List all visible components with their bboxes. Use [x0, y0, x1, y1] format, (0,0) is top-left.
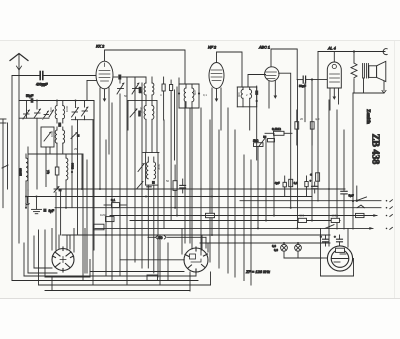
trimmer C6	[49, 110, 54, 117]
svg-text:600: 600	[193, 90, 197, 95]
terminal row 3	[386, 215, 393, 217]
wire bus 215	[110, 214, 378, 217]
junction dots buses	[25, 188, 330, 244]
svg-text:0,3: 0,3	[294, 181, 298, 185]
capacitor C31	[283, 176, 286, 197]
IF transformer T1 lower	[144, 95, 154, 152]
tube ABC1	[265, 67, 279, 81]
svg-text:1000: 1000	[50, 130, 54, 137]
resistor R9 pill	[254, 143, 264, 147]
scattered small labels	[42, 90, 338, 218]
capacitor C21	[180, 179, 186, 193]
lamp La2	[295, 243, 302, 258]
wire front-end top rail	[19, 76, 94, 244]
trimmer C4	[34, 101, 41, 119]
junction dot T2b	[198, 92, 200, 94]
wire ABC1 cathode arrow	[274, 81, 278, 99]
wire node A drop	[71, 126, 73, 208]
svg-text:50: 50	[124, 94, 128, 98]
svg-text:500: 500	[300, 214, 305, 218]
svg-text:10000: 10000	[19, 168, 23, 176]
capacitor C11	[162, 77, 165, 120]
terminal input marks	[0, 119, 8, 168]
coil L3 10000	[26, 154, 28, 208]
terminal label 50	[148, 236, 206, 248]
wire bus 243	[200, 242, 330, 244]
oscillator coil Ld	[63, 127, 65, 154]
IF transformer T2	[179, 78, 199, 243]
trimmer C10	[132, 83, 139, 94]
wire socket V2 mid feed	[120, 259, 184, 261]
capacitor C2 blob	[31, 98, 34, 103]
resistor R16	[206, 213, 215, 217]
svg-text:5µF: 5µF	[349, 194, 354, 198]
junction dot rail3	[75, 100, 77, 102]
wire NF2 pins	[212, 88, 221, 235]
connector hook	[26, 197, 29, 205]
wire bus 235	[62, 234, 330, 236]
tube NF2	[209, 63, 224, 89]
svg-text:2000: 2000	[138, 87, 142, 93]
socket V2	[184, 247, 208, 273]
wire speaker return	[353, 93, 384, 229]
output transformer	[363, 64, 369, 94]
junction dot D	[311, 78, 313, 80]
svg-text:20: 20	[300, 117, 304, 121]
wire AL4 top	[333, 52, 335, 63]
oscillator coil La	[55, 101, 57, 124]
wire ABC1 loop	[271, 49, 297, 80]
resistor R13	[147, 275, 158, 280]
svg-text:ABC 1: ABC 1	[258, 46, 270, 50]
svg-text:0,3: 0,3	[274, 248, 278, 252]
wire bus 208	[55, 205, 381, 208]
wire lamp return	[284, 257, 322, 259]
capacitor C26	[147, 187, 151, 189]
trimmer C29	[54, 186, 60, 192]
trimmer C5	[44, 111, 49, 118]
socket V1	[52, 247, 74, 272]
capacitor C7 blob	[43, 209, 46, 212]
capacitor C20 blob	[255, 91, 258, 95]
wire bus 228	[95, 225, 374, 230]
wire bus 220	[130, 220, 340, 222]
wire KK2 cathode arrow	[103, 89, 107, 102]
junction dot C	[352, 200, 354, 202]
junction dot T2a	[178, 92, 180, 94]
wire ABC1 pin	[268, 81, 270, 108]
wire ABC1 anode right	[279, 73, 291, 208]
junction dot T3a	[256, 92, 258, 94]
wire left rail	[12, 76, 198, 281]
resistor R5 pill	[265, 131, 292, 135]
wire socket V2 left feed	[90, 271, 184, 273]
resistor R10	[104, 203, 126, 208]
trimmer C33	[71, 132, 77, 138]
wire bundle center	[185, 102, 274, 285]
junction dot rail1	[36, 100, 38, 102]
wire KK2 pins	[100, 88, 109, 189]
oscillator coil Lb	[63, 101, 65, 124]
svg-text:25: 25	[74, 147, 78, 151]
svg-text:+: +	[334, 235, 336, 239]
wire mid-left bus	[28, 147, 82, 190]
oscillator coil Lc	[55, 127, 57, 154]
svg-text:0,1: 0,1	[203, 93, 207, 97]
wire socket V2 loops	[160, 228, 208, 285]
wire bus 196	[26, 196, 312, 198]
svg-text:2000: 2000	[139, 106, 143, 113]
capacitor C1	[40, 72, 43, 80]
antenna	[10, 54, 28, 76]
terminal row 2	[386, 207, 393, 209]
trimmer C9	[117, 83, 124, 94]
svg-text:+: +	[310, 173, 312, 177]
wire ABC1 grid feed	[248, 75, 266, 88]
lamp La1	[281, 243, 288, 258]
resistor R12	[94, 224, 105, 230]
capacitor C23	[337, 235, 343, 246]
junction dot rail2	[56, 100, 58, 102]
capacitor C15	[297, 76, 327, 83]
resistor R4	[310, 122, 314, 145]
socket V3 power	[327, 246, 352, 271]
svg-text:3000: 3000	[157, 163, 161, 170]
svg-text:0,1: 0,1	[111, 198, 116, 202]
trimmer C7a	[72, 101, 79, 118]
svg-text:NF 2: NF 2	[208, 46, 217, 50]
capacitor C14 blob	[138, 111, 141, 117]
resistor R7	[289, 179, 293, 186]
wire extra rails	[37, 81, 175, 251]
wire C20 rail	[256, 86, 258, 160]
wire AL4 pins	[330, 88, 339, 110]
svg-text:1MΩ: 1MΩ	[100, 213, 106, 217]
wire NF2 cathode arrow	[215, 89, 219, 102]
trimmer C25	[137, 181, 144, 189]
capacitor C16 electrolytic	[310, 173, 320, 181]
junction dot E	[256, 100, 258, 102]
wire socket V1 loops	[24, 190, 211, 291]
wire rails under KK2	[120, 77, 135, 285]
svg-text:ZF = 128 kHz: ZF = 128 kHz	[245, 269, 270, 274]
svg-text:4µF: 4µF	[275, 181, 280, 185]
wire KK2 anode loop	[105, 50, 186, 84]
wire bundle center-left	[83, 83, 177, 285]
trimmer C24	[138, 163, 145, 171]
IF transformer T3	[237, 87, 256, 130]
svg-text:8µF: 8µF	[49, 209, 55, 213]
svg-text:0,1: 0,1	[46, 170, 50, 174]
capacitor C32	[305, 176, 308, 197]
svg-text:Zenith: Zenith	[365, 109, 371, 124]
capacitor C8 blob	[118, 75, 121, 80]
resistor R3	[295, 110, 299, 145]
terminal row 1	[386, 200, 393, 202]
speaker	[369, 61, 386, 93]
wire plate bus	[318, 52, 385, 202]
junction dot B	[353, 50, 355, 52]
capacitor C28	[312, 182, 319, 193]
band switch box	[41, 127, 54, 147]
capacitor C12	[170, 80, 173, 221]
wire antenna feed	[12, 75, 96, 77]
svg-text:100: 100	[49, 107, 53, 112]
svg-text:1kΩ: 1kΩ	[253, 139, 259, 143]
tube AL4	[327, 62, 341, 88]
svg-text:ZB 438: ZB 438	[370, 134, 381, 165]
resistor R6 pill	[268, 139, 275, 142]
capacitor C30 blob	[59, 189, 62, 192]
svg-text:50: 50	[166, 179, 170, 183]
wire KK2 grid	[113, 76, 146, 78]
svg-text:600: 600	[237, 92, 241, 97]
resistor R1	[55, 154, 59, 189]
ground	[32, 197, 42, 214]
trimmer C13	[130, 109, 138, 118]
trimmer C3	[23, 110, 30, 119]
wire bus 189	[54, 188, 345, 190]
hook end	[383, 49, 387, 55]
tube KK2	[96, 61, 113, 89]
coil L4 5000	[66, 154, 68, 208]
svg-text:50: 50	[159, 236, 163, 240]
wire bus 201	[240, 186, 381, 202]
wire right rails	[298, 80, 345, 246]
capacitor C19 blob	[263, 136, 266, 139]
svg-text:AL 4: AL 4	[327, 47, 336, 51]
resistor R17	[356, 213, 365, 217]
resistor R8	[173, 165, 177, 208]
svg-text:0,1MΩ: 0,1MΩ	[272, 127, 282, 131]
trimmer C6b	[44, 132, 51, 141]
svg-text:1000: 1000	[65, 105, 69, 112]
svg-text:5000: 5000	[71, 163, 75, 169]
IF transformer T4	[143, 152, 159, 273]
svg-text:50µF: 50µF	[26, 94, 33, 98]
wire left edge rails	[3, 119, 8, 208]
wire AL4 cathode arrow	[333, 88, 337, 100]
wire ground col rails	[56, 191, 61, 250]
capacitor C2b blob	[58, 123, 61, 127]
trimmer C18	[259, 137, 267, 147]
svg-text:400µµF: 400µµF	[36, 83, 48, 87]
capacitor C22	[323, 235, 329, 246]
wire T1 tie	[128, 100, 158, 277]
svg-text:KK 2: KK 2	[96, 45, 105, 49]
wire trimmer ties	[19, 101, 94, 120]
capacitor C34 blob	[77, 134, 80, 137]
wire NF2 anode loop	[217, 52, 243, 87]
trimmer C7b	[82, 101, 89, 117]
terminal row 4	[386, 227, 393, 229]
resistor R2 zigzag	[351, 52, 357, 94]
resistor R14	[298, 218, 306, 222]
wire power frame	[321, 229, 354, 276]
capacitor C27 blob	[152, 181, 155, 184]
svg-text:4µF: 4µF	[315, 117, 320, 121]
capacitor C17	[341, 191, 347, 194]
svg-text:100Ω: 100Ω	[332, 214, 339, 218]
junction dot A	[71, 171, 73, 173]
resistor R11	[106, 217, 115, 222]
resistor R15	[331, 218, 339, 222]
IF transformer T1 upper	[144, 77, 154, 95]
